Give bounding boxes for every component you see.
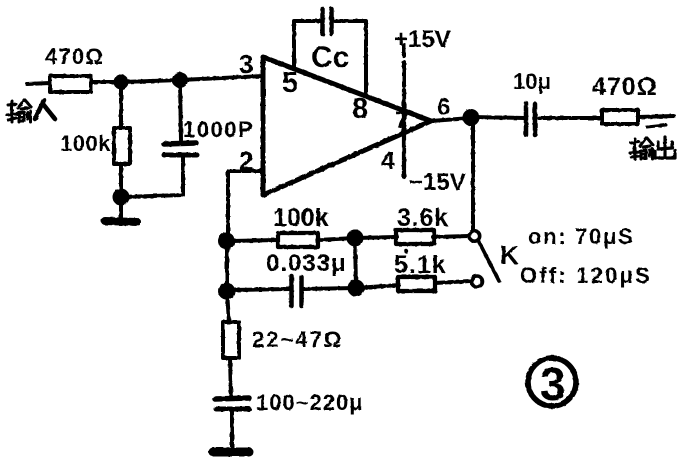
resistor R6 5.1k bbox=[398, 277, 435, 291]
wire R2 to node C bbox=[119, 164, 123, 197]
wire node G to C3 bbox=[231, 289, 290, 290]
node H junction bbox=[350, 282, 363, 295]
svg-text:1000P: 1000P bbox=[183, 117, 254, 142]
wire R7 to C4 bbox=[230, 358, 231, 396]
wire pin 6 output bbox=[431, 118, 471, 121]
switch K contact bottom bbox=[472, 276, 483, 287]
svg-text:470Ω: 470Ω bbox=[592, 73, 658, 101]
wire node E to R4 bbox=[231, 240, 278, 241]
node C junction bbox=[115, 191, 128, 204]
wire node D to C2 bbox=[471, 117, 524, 118]
wire R5 to switch top bbox=[433, 236, 469, 237]
wire node F to node H bbox=[355, 238, 356, 288]
node G junction bbox=[220, 285, 233, 298]
op-amp U1 bbox=[263, 57, 431, 195]
wire stray mark bbox=[647, 125, 666, 127]
switch K lever bbox=[478, 240, 499, 281]
wire R6 to switch bottom bbox=[435, 281, 470, 283]
svg-text:7: 7 bbox=[395, 107, 408, 134]
svg-text:0.033μ: 0.033μ bbox=[266, 250, 347, 277]
node F junction bbox=[349, 232, 362, 245]
node D junction output bbox=[465, 111, 478, 124]
wire stray dot above 5.1k bbox=[404, 249, 408, 253]
wire left column bbox=[226, 171, 230, 241]
wire R4 to node F bbox=[318, 238, 355, 240]
wire supply solid bbox=[402, 90, 406, 177]
ground G2 bbox=[213, 448, 249, 457]
svg-text:100~220μ: 100~220μ bbox=[256, 390, 364, 415]
svg-text:100k: 100k bbox=[60, 131, 111, 156]
svg-text:2: 2 bbox=[239, 146, 253, 176]
svg-text:10μ: 10μ bbox=[513, 69, 551, 94]
wire node A to node B bbox=[121, 80, 180, 82]
capacitor C1 1000p bbox=[164, 143, 196, 144]
svg-text:Cc: Cc bbox=[311, 41, 349, 74]
wire C4 to ground bbox=[230, 411, 234, 449]
svg-text:100k: 100k bbox=[273, 204, 329, 232]
svg-text:3.6k: 3.6k bbox=[397, 204, 449, 232]
wire node A down bbox=[119, 82, 123, 128]
wire C2 to R3 bbox=[539, 116, 602, 120]
wire C1 bottom to node C bbox=[121, 157, 183, 197]
resistor R2 100k bbox=[114, 128, 130, 164]
label shu-chu output chinese bbox=[630, 138, 653, 159]
svg-text:on: 70μS: on: 70μS bbox=[528, 224, 635, 249]
circled 3 figure number bbox=[528, 358, 576, 406]
wire C3 to node H bbox=[303, 288, 356, 289]
svg-text:470Ω: 470Ω bbox=[45, 44, 104, 69]
svg-text:6: 6 bbox=[437, 94, 450, 121]
ground G1 bbox=[119, 197, 123, 219]
wire pin 2 bbox=[228, 171, 263, 241]
wire node H to R6 bbox=[356, 285, 399, 288]
resistor R3 470ohm output bbox=[602, 110, 638, 124]
wire node F to R5 bbox=[355, 237, 397, 238]
svg-text:5.1k: 5.1k bbox=[394, 251, 447, 279]
svg-text:3: 3 bbox=[540, 358, 566, 410]
wire supply dashed bbox=[402, 45, 406, 56]
wire node G down bbox=[227, 291, 229, 322]
node A junction bbox=[116, 77, 127, 88]
wire R3 to output bbox=[638, 116, 674, 117]
node E junction bbox=[220, 235, 233, 248]
resistor R1 470ohm input bbox=[50, 76, 91, 92]
wire node B to pin 3 bbox=[180, 76, 263, 80]
svg-text:4: 4 bbox=[381, 147, 395, 175]
svg-text:8: 8 bbox=[352, 93, 368, 125]
resistor R5 3.6k bbox=[396, 230, 434, 244]
capacitor Cc bbox=[320, 9, 325, 34]
wire node D down to switch bbox=[471, 122, 475, 231]
wire C1 top bbox=[180, 80, 181, 140]
node B junction bbox=[174, 74, 186, 86]
svg-text:K: K bbox=[500, 240, 519, 270]
capacitor Cc bracket right bbox=[335, 21, 366, 95]
wire R1 to node A bbox=[91, 80, 121, 84]
capacitor C4 100-220u bbox=[215, 398, 249, 399]
svg-text:22~47Ω: 22~47Ω bbox=[252, 327, 343, 352]
capacitor C2 10u bbox=[524, 103, 529, 135]
capacitor C3 0.033u bbox=[289, 276, 294, 306]
switch K contact top bbox=[469, 231, 479, 241]
resistor R7 22-47ohm bbox=[223, 322, 239, 358]
svg-text:−15V: −15V bbox=[409, 169, 466, 196]
svg-text:5: 5 bbox=[282, 67, 298, 99]
wire node E down bbox=[225, 241, 229, 291]
svg-text:3: 3 bbox=[239, 49, 253, 79]
svg-text:+15V: +15V bbox=[394, 26, 451, 53]
resistor R4 100k feedback bbox=[278, 233, 318, 247]
capacitor Cc bracket left bbox=[294, 21, 320, 68]
svg-text:Off: 120μS: Off: 120μS bbox=[520, 263, 652, 288]
wire input bbox=[27, 83, 50, 84]
label shu-ru input chinese bbox=[7, 100, 31, 122]
